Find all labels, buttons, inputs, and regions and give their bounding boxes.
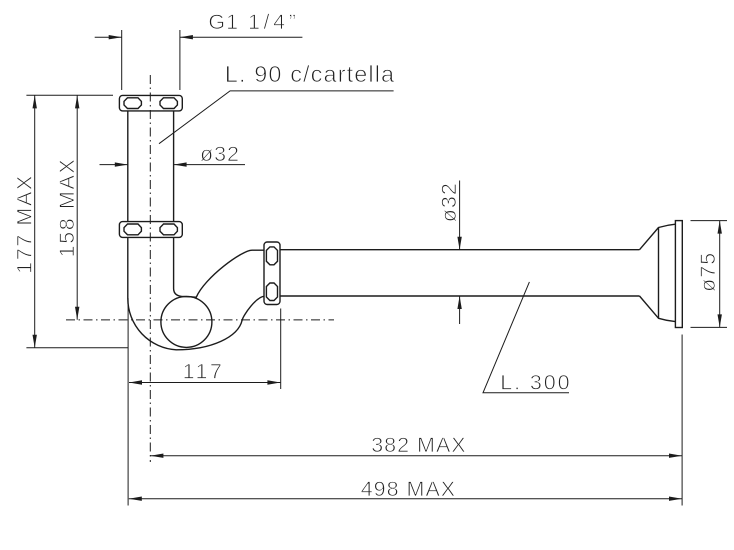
nut N2 (lower slip nut on vertical pipe) [119,222,182,238]
dimension 177 MAX [26,95,128,347]
leader L. 90 c/cartella [159,91,394,144]
svg-text:ø32: ø32 [437,182,461,222]
svg-text:498 MAX: 498 MAX [361,477,456,501]
dimension 382 MAX [681,335,683,506]
dimension 498 MAX [129,498,682,500]
wall flange rosette [640,221,683,328]
dimension 158 MAX [76,95,78,319]
dimension G1 1/4" [95,30,303,90]
dash-dot vertical centerline of inlet [149,75,151,462]
leader L. 300 [483,282,569,393]
svg-text:177 MAX: 177 MAX [13,174,37,274]
svg-text:382 MAX: 382 MAX [371,433,466,457]
svg-text:117: 117 [183,360,225,384]
nut N3 (slip nut on horizontal outlet) [264,242,280,305]
vertical inlet pipe walls [128,111,265,350]
svg-text:G1: G1 [208,10,239,34]
dash-dot horizontal centerline of trap [66,319,334,321]
trap ball [161,296,212,347]
svg-text:158 MAX: 158 MAX [55,158,79,258]
dimension o75 [691,221,728,328]
horizontal outlet pipe [280,250,640,296]
svg-text:ø32: ø32 [200,142,240,166]
dimension o32 vertical pipe [100,164,246,166]
dimension o32 horizontal pipe [459,181,461,250]
svg-text:L. 300: L. 300 [500,371,571,395]
svg-text:L. 90 c/cartella: L. 90 c/cartella [225,61,395,87]
dimension 117 [128,298,281,506]
svg-text:ø75: ø75 [696,252,720,292]
nut N1 (top slip nut) [119,95,182,111]
svg-text:1/4”: 1/4” [248,10,299,34]
